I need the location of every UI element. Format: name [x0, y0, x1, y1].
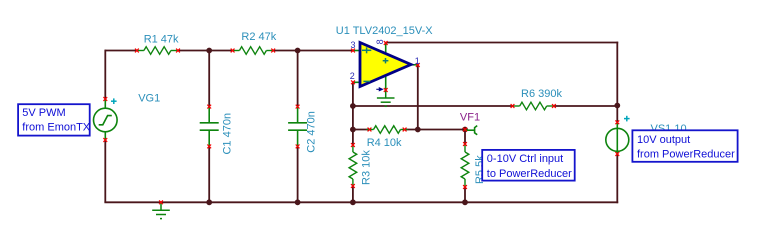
svg-text:R6 390k: R6 390k — [521, 88, 562, 100]
svg-text:VF1: VF1 — [460, 112, 480, 124]
svg-text:from EmonTX: from EmonTX — [22, 121, 91, 133]
svg-text:from PowerReducer: from PowerReducer — [637, 148, 735, 160]
svg-text:R1 47k: R1 47k — [144, 34, 179, 46]
svg-text:8: 8 — [375, 39, 385, 44]
svg-text:0-10V Ctrl input: 0-10V Ctrl input — [487, 153, 563, 165]
svg-text:to PowerReducer: to PowerReducer — [487, 168, 572, 180]
svg-text:R3 10k: R3 10k — [360, 150, 372, 185]
svg-text:R4 10k: R4 10k — [367, 137, 402, 149]
svg-text:3: 3 — [350, 40, 355, 50]
svg-text:VG1: VG1 — [138, 92, 160, 104]
svg-text:2: 2 — [350, 71, 355, 81]
svg-text:U1 TLV2402_15V-X: U1 TLV2402_15V-X — [336, 25, 433, 37]
svg-text:C1 470n: C1 470n — [222, 113, 234, 155]
svg-text:5V PWM: 5V PWM — [22, 107, 65, 119]
svg-text:1: 1 — [415, 56, 420, 66]
svg-text:R2 47k: R2 47k — [241, 31, 276, 43]
svg-text:10V output: 10V output — [637, 134, 690, 146]
svg-text:C2 470n: C2 470n — [305, 111, 317, 153]
